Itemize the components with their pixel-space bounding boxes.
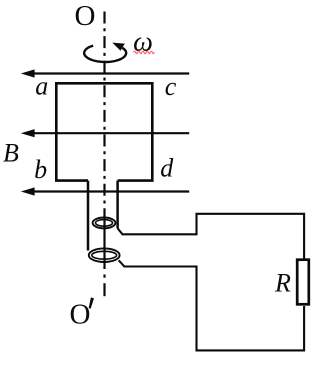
- field arrow middle: [21, 129, 189, 137]
- svg-text:d: d: [160, 154, 174, 183]
- spellcheck squiggle under omega: [134, 51, 155, 53]
- field arrow top: [21, 69, 189, 77]
- angular velocity arc: [84, 46, 126, 62]
- slip ring lower: [89, 248, 120, 262]
- brush wire lower to external circuit: [119, 260, 304, 350]
- resistor R: [297, 260, 309, 305]
- svg-text:a: a: [35, 71, 48, 100]
- slip ring upper: [93, 218, 116, 229]
- svg-text:B: B: [3, 138, 19, 167]
- coil lead right wire: [116, 181, 119, 228]
- angular velocity arrowhead: [112, 43, 125, 51]
- svg-text:O: O: [75, 0, 96, 32]
- rotation axis OO' (dash-dot): [103, 12, 105, 297]
- svg-text:b: b: [34, 155, 47, 184]
- svg-text:c: c: [165, 72, 177, 101]
- coil loop abcd: [56, 83, 152, 180]
- coil lead left wire: [87, 181, 90, 251]
- field arrow bottom: [21, 187, 189, 195]
- brush wire upper to external circuit: [117, 214, 304, 259]
- svg-text:R: R: [274, 269, 291, 298]
- svg-text:O: O: [70, 299, 91, 331]
